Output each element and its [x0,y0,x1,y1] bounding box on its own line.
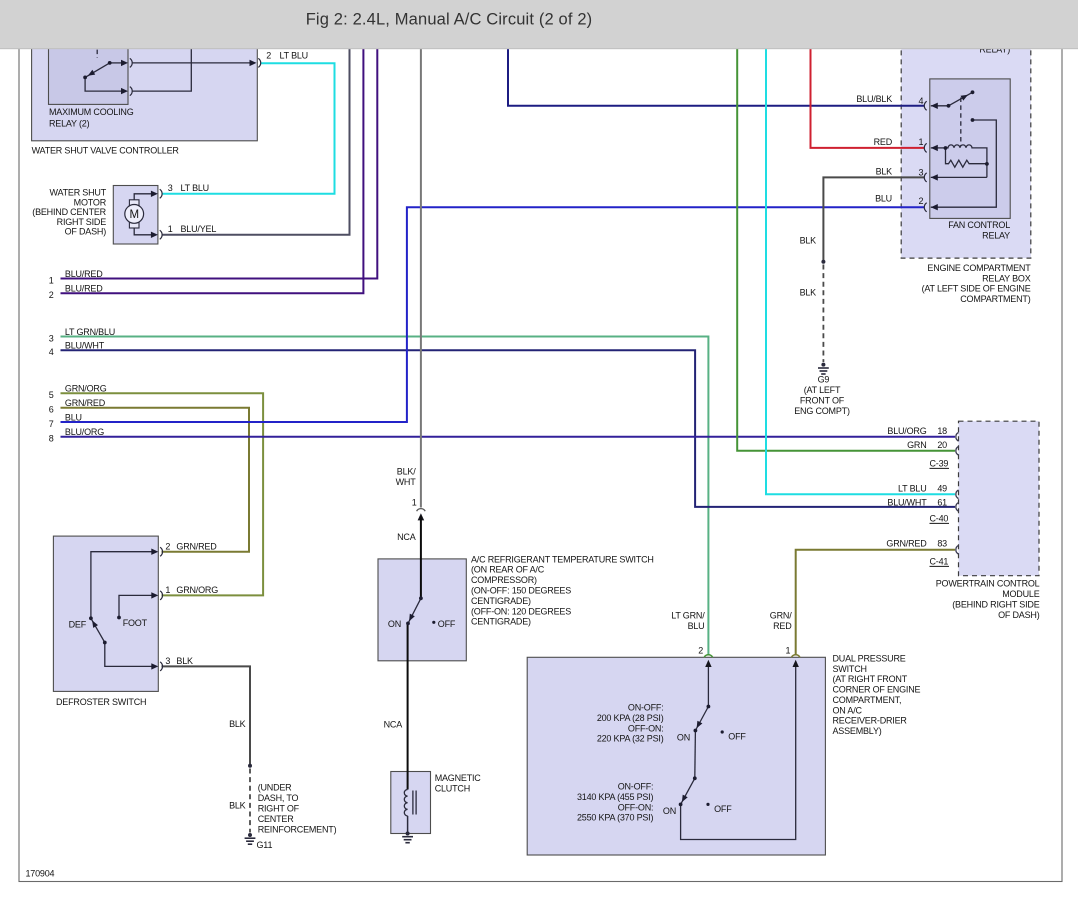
svg-text:RED: RED [773,621,792,631]
svg-text:20: 20 [937,440,947,450]
svg-text:3: 3 [49,333,54,343]
box: MAGNETIC CLUTCH [391,772,431,834]
svg-text:BLU/RED: BLU/RED [65,269,103,279]
wire BLK dashed (to ground G11) [249,769,251,833]
node: defroster common dot [103,641,107,645]
svg-text:LT GRN/BLU: LT GRN/BLU [65,327,115,337]
connector arrow+paren defroster pin 3 [151,663,158,669]
node: fan relay arm tip dot [971,90,975,94]
fan relay pin 4 connector [931,103,938,109]
box: MAXIMUM COOLING RELAY (2) [49,18,129,104]
wire between connectors [132,62,250,64]
svg-text:Fig 2: 2.4L, Manual A/C Circui: Fig 2: 2.4L, Manual A/C Circuit (2 of 2) [306,11,593,29]
arrow on fan relay arm [961,95,969,101]
wire ON2 to pin 1 [681,662,796,840]
svg-text:2: 2 [49,290,54,300]
svg-text:A/C REFRIGERANT TEMPERATURE SW: A/C REFRIGERANT TEMPERATURE SWITCH [471,554,654,564]
PCM pin 49 connector arc [956,490,959,499]
pin 4 wire [931,105,949,107]
svg-text:ON-OFF:: ON-OFF: [628,703,664,713]
svg-text:7: 7 [49,419,54,429]
wire 3 LT GRN/BLU (to dual pressure switch pin 2) [61,337,709,656]
wire BLK (fan control relay pin 3 to G9) [823,177,924,261]
relay dashed actuator line [96,18,98,58]
svg-text:OFF-ON:: OFF-ON: [628,723,664,733]
svg-text:MAGNETIC: MAGNETIC [435,773,482,783]
svg-text:GRN/: GRN/ [770,611,792,621]
node: relay contact dot [108,61,112,65]
svg-text:BLK: BLK [876,167,893,177]
svg-text:3140 KPA (455 PSI): 3140 KPA (455 PSI) [577,792,653,802]
svg-text:WHT: WHT [396,477,417,487]
box: POWERTRAIN CONTROL MODULE (dashed) [959,421,1040,576]
svg-text:BLU/RED: BLU/RED [65,284,103,294]
svg-text:MODULE: MODULE [1002,589,1040,599]
svg-text:BLU/YEL: BLU/YEL [181,224,217,234]
svg-text:(BEHIND CENTER: (BEHIND CENTER [32,207,106,217]
wire DEF contact to pin 2 [91,552,156,619]
svg-text:(ON REAR OF A/C: (ON REAR OF A/C [471,565,545,575]
wire pin to top [132,18,191,91]
svg-text:OFF: OFF [438,619,456,629]
svg-text:(AT LEFT: (AT LEFT [804,385,841,395]
switch arm 1 [695,707,708,731]
connector arrow+paren defroster pin 1 [151,592,158,598]
arrow on defroster arm [92,620,98,628]
arrow on temp switch arm [409,614,415,622]
svg-text:SWITCH: SWITCH [833,664,867,674]
svg-text:C-41: C-41 [930,557,949,567]
svg-text:DEFROSTER SWITCH: DEFROSTER SWITCH [56,697,146,707]
svg-text:8: 8 [49,433,54,443]
wire ON1 to pivot 2 [694,731,697,779]
fan relay pin 3 connector [931,174,938,180]
node: pressure pivot 1 dot [707,705,711,709]
wire common to pin 3 [105,643,156,667]
svg-text:83: 83 [937,539,947,549]
svg-text:BLK/: BLK/ [397,467,416,477]
svg-text:ENG COMPT): ENG COMPT) [794,406,850,416]
svg-text:OFF: OFF [714,804,732,814]
svg-text:BLU/WHT: BLU/WHT [65,341,105,351]
svg-text:200 KPA (28 PSI): 200 KPA (28 PSI) [597,713,664,723]
connector arrow+paren motor pin 1 [151,232,158,238]
svg-text:5: 5 [49,390,54,400]
node: pressure OFF2 dot [706,803,709,806]
node: FOOT contact dot [117,616,121,620]
relay coil [946,145,987,178]
wire NCA (temperature switch to magnetic clutch) [407,623,409,789]
svg-text:OF DASH): OF DASH) [65,227,107,237]
switch arm DEF [91,618,105,642]
temperature switch internals [408,598,421,623]
relay dashed actuator line [960,98,962,147]
connector arrow+paren inner pin bottom [121,88,128,94]
PCM pin 83 connector arc [956,545,959,554]
svg-text:(BEHIND RIGHT SIDE: (BEHIND RIGHT SIDE [952,600,1039,610]
svg-text:BLU: BLU [875,194,892,204]
arrow on relay arm [88,70,95,76]
svg-text:GRN: GRN [907,440,926,450]
box: FAN CONTROL RELAY [930,79,1010,219]
svg-text:MOTOR: MOTOR [74,197,107,207]
wire BLK dashed (to ground G9) [822,265,824,363]
svg-text:FOOT: FOOT [123,618,148,628]
svg-text:2550 KPA (370 PSI): 2550 KPA (370 PSI) [577,813,653,823]
svg-text:DUAL PRESSURE: DUAL PRESSURE [833,654,906,664]
node: fan relay coil left dot [944,146,948,150]
svg-text:2: 2 [165,541,170,551]
svg-text:C-39: C-39 [930,459,949,469]
relay switch arm [85,63,110,78]
svg-text:BLU/ORG: BLU/ORG [65,427,104,437]
svg-text:LT BLU: LT BLU [181,183,209,193]
wire 5 GRN/ORG (to defroster pin 1) [61,393,264,595]
node: pressure ON2 dot [679,803,683,807]
inline connector 1 (arc and up arrow) [417,509,426,512]
svg-text:FAN CONTROL: FAN CONTROL [948,220,1010,230]
svg-text:BLK: BLK [176,656,193,666]
wire common to pin [85,77,121,91]
svg-text:OFF: OFF [728,732,746,742]
pressure switch pin 2 connector arc+arrow [704,655,713,658]
svg-text:RED: RED [874,137,893,147]
node: relay common dot [83,76,87,80]
contact wire to pin 2 [931,120,997,207]
svg-text:(AT LEFT SIDE OF ENGINE: (AT LEFT SIDE OF ENGINE [922,284,1031,294]
svg-text:1: 1 [165,585,170,595]
wire contact to pin 2 [110,62,122,64]
svg-text:C-40: C-40 [930,514,949,524]
svg-text:4: 4 [918,96,923,106]
wire 2 BLU/RED [61,18,364,293]
wire BLU/YEL (motor pin 1 up) [162,18,350,235]
arrow on pressure arm 2 [682,795,688,803]
svg-text:1: 1 [918,137,923,147]
node: fan relay coil-resistor dot [985,162,989,166]
svg-text:WATER SHUT VALVE CONTROLLER: WATER SHUT VALVE CONTROLLER [32,146,180,156]
svg-text:LT BLU: LT BLU [898,483,926,493]
switch arm 2 [681,778,695,804]
svg-text:RIGHT SIDE: RIGHT SIDE [57,217,107,227]
connector arrow+paren defroster pin 2 [151,549,158,555]
svg-text:LT BLU: LT BLU [280,50,308,60]
svg-text:61: 61 [937,497,947,507]
svg-text:BLU: BLU [65,412,82,422]
pin 3 wire [931,176,987,178]
svg-text:(AT RIGHT FRONT: (AT RIGHT FRONT [833,674,908,684]
dual pressure switch internals [681,662,796,840]
svg-text:GRN/RED: GRN/RED [886,539,927,549]
box: DEFROSTER SWITCH [53,536,158,691]
fan control relay internals [931,92,997,207]
svg-text:RECEIVER-DRIER: RECEIVER-DRIER [833,716,908,726]
svg-text:(UNDER: (UNDER [258,783,292,793]
svg-text:COMPARTMENT,: COMPARTMENT, [833,695,902,705]
svg-text:170904: 170904 [26,869,55,879]
svg-text:RELAY (2): RELAY (2) [49,119,90,129]
svg-text:M: M [130,209,139,221]
svg-text:ASSEMBLY): ASSEMBLY) [833,726,882,736]
node: temp switch OFF dot [432,621,435,624]
wire LT BLU (to PCM pin 49) [766,18,955,494]
svg-text:NCA: NCA [397,532,416,542]
wire 4 BLU/WHT (to PCM pin 61) [61,350,956,507]
svg-text:CLUTCH: CLUTCH [435,784,470,794]
svg-text:BLU: BLU [688,621,705,631]
svg-text:18: 18 [937,426,947,436]
connector arrow+paren inner pin top [121,60,128,66]
PCM pin 61 connector arc [956,503,959,512]
water shut motor M symbol [129,200,139,206]
node: pressure pivot 2 dot [693,776,697,780]
motor wires to pins [134,194,151,235]
svg-text:RELAY BOX: RELAY BOX [982,273,1031,283]
svg-text:RIGHT OF: RIGHT OF [258,804,300,814]
svg-text:2: 2 [918,196,923,206]
title bar [0,0,1078,49]
svg-text:BLK: BLK [800,236,817,246]
svg-text:220 KPA (32 PSI): 220 KPA (32 PSI) [597,734,664,744]
svg-text:3: 3 [168,183,173,193]
svg-text:COMPARTMENT): COMPARTMENT) [960,294,1030,304]
relay resistor [946,148,987,167]
svg-text:GRN/RED: GRN/RED [176,541,217,551]
PCM pin 18 connector arc [956,433,959,442]
svg-text:OFF-ON:: OFF-ON: [618,802,654,812]
svg-text:2: 2 [266,50,271,60]
arrow on pressure arm 1 [697,721,703,729]
svg-text:REINFORCEMENT): REINFORCEMENT) [258,825,337,835]
wire BLK (defroster pin 3 to G11) [162,666,251,764]
fan relay pin 2 connector [931,204,938,210]
svg-text:G11: G11 [257,840,273,850]
clutch wire to ground [407,816,409,834]
svg-text:ON: ON [388,619,401,629]
svg-text:CENTIGRADE): CENTIGRADE) [471,617,531,627]
magnetic clutch coil [404,790,407,816]
wire BLK/WHT (down to inline connector 1) [420,18,422,508]
wire 8 BLU/ORG (to PCM pin 18) [61,436,956,438]
svg-text:49: 49 [937,483,947,493]
ground G9 [818,363,829,374]
relay switch arm [949,92,973,106]
svg-text:1: 1 [168,224,173,234]
ground G11 [245,833,256,844]
node: temp switch ON dot [406,622,410,626]
svg-text:RELAY: RELAY [982,231,1010,241]
svg-text:POWERTRAIN CONTROL: POWERTRAIN CONTROL [936,579,1040,589]
svg-text:BLK: BLK [800,288,817,298]
wire 1 BLU/RED [61,18,378,279]
svg-text:3: 3 [165,656,170,666]
svg-text:NCA: NCA [384,720,403,730]
svg-text:BLK: BLK [229,800,246,810]
connector arrow+paren motor pin 3 [151,191,158,197]
svg-text:1: 1 [785,645,790,655]
svg-text:BLK: BLK [229,719,246,729]
wire 7 BLU (to fan control relay pin 2) [61,207,925,422]
svg-text:LT GRN/: LT GRN/ [671,611,705,621]
node: pressure OFF1 dot [721,730,724,733]
node: fan relay fixed contact dot [971,118,975,122]
svg-text:ON A/C: ON A/C [833,705,863,715]
svg-text:BLU/WHT: BLU/WHT [887,497,927,507]
svg-text:ENGINE COMPARTMENT: ENGINE COMPARTMENT [927,263,1031,273]
svg-text:6: 6 [49,405,54,415]
defroster switch internals [91,552,156,667]
svg-text:3: 3 [918,168,923,178]
node: temp switch pivot dot [419,596,423,600]
svg-text:1: 1 [49,275,54,285]
box: DUAL PRESSURE SWITCH [527,657,825,855]
svg-text:(OFF-ON: 120 DEGREES: (OFF-ON: 120 DEGREES [471,606,571,616]
wire FOOT contact to pin 1 [119,595,156,617]
svg-text:4: 4 [49,347,54,357]
connector arrow+paren controller pin 2 [250,60,257,66]
svg-text:ON: ON [663,806,676,816]
pin 2 stem [707,662,709,707]
box: WATER SHUT VALVE CONTROLLER [32,18,258,141]
wire GRN/RED (dual pressure switch pin 1 to PCM pin 83) [796,550,955,655]
svg-text:1: 1 [412,498,417,508]
node: pressure ON1 dot [694,729,698,733]
pressure switch pin 1 connector arc+arrow [791,655,800,658]
svg-text:ON: ON [677,732,690,742]
wire 6 GRN/RED (to defroster pin 2) [61,408,250,552]
wire RED (to fan control relay pin 1) [811,18,925,148]
svg-text:WATER SHUT: WATER SHUT [50,188,107,198]
svg-text:COMPRESSOR): COMPRESSOR) [471,575,537,585]
wire NCA (connector to temperature switch) [420,516,422,598]
svg-text:CENTIGRADE): CENTIGRADE) [471,596,531,606]
wire LT BLU (controller pin 2 to motor pin 3) [162,63,335,194]
svg-text:BLU/BLK: BLU/BLK [856,94,892,104]
box: ENGINE COMPARTMENT RELAY BOX (dashed) [901,18,1031,258]
svg-text:FRONT OF: FRONT OF [800,396,845,406]
svg-text:ON-OFF:: ON-OFF: [618,782,654,792]
svg-text:CENTER: CENTER [258,814,295,824]
svg-text:DEF: DEF [69,620,87,630]
PCM pin 20 connector arc [956,447,959,456]
svg-text:MAXIMUM COOLING: MAXIMUM COOLING [49,107,134,117]
svg-text:BLU/ORG: BLU/ORG [887,426,926,436]
svg-text:OF DASH): OF DASH) [998,610,1040,620]
svg-text:DASH, TO: DASH, TO [258,793,299,803]
node: BLK splice dot at defroster [248,764,252,768]
fan relay pin 1 connector [931,145,938,151]
svg-text:(ON-OFF: 150 DEGREES: (ON-OFF: 150 DEGREES [471,586,571,596]
svg-text:GRN/ORG: GRN/ORG [176,585,218,595]
pin 1 wire [931,147,946,149]
wire BLU/BLK (to fan control relay pin 4) [508,18,925,106]
ground at magnetic clutch [402,832,413,843]
svg-text:CORNER OF ENGINE: CORNER OF ENGINE [833,685,921,695]
node: fan relay common dot [947,104,951,108]
wire GRN (to PCM pin 20) [737,18,955,451]
svg-text:G9: G9 [818,374,830,384]
svg-text:GRN/ORG: GRN/ORG [65,384,107,394]
svg-text:GRN/RED: GRN/RED [65,398,106,408]
maximum cooling relay internals [85,18,249,91]
box: WATER SHUT MOTOR [113,186,158,245]
svg-text:2: 2 [698,645,703,655]
node: BLK splice dot [821,260,825,264]
node: DEF contact dot [89,616,93,620]
box: A/C REFRIGERANT TEMPERATURE SWITCH [378,559,466,661]
